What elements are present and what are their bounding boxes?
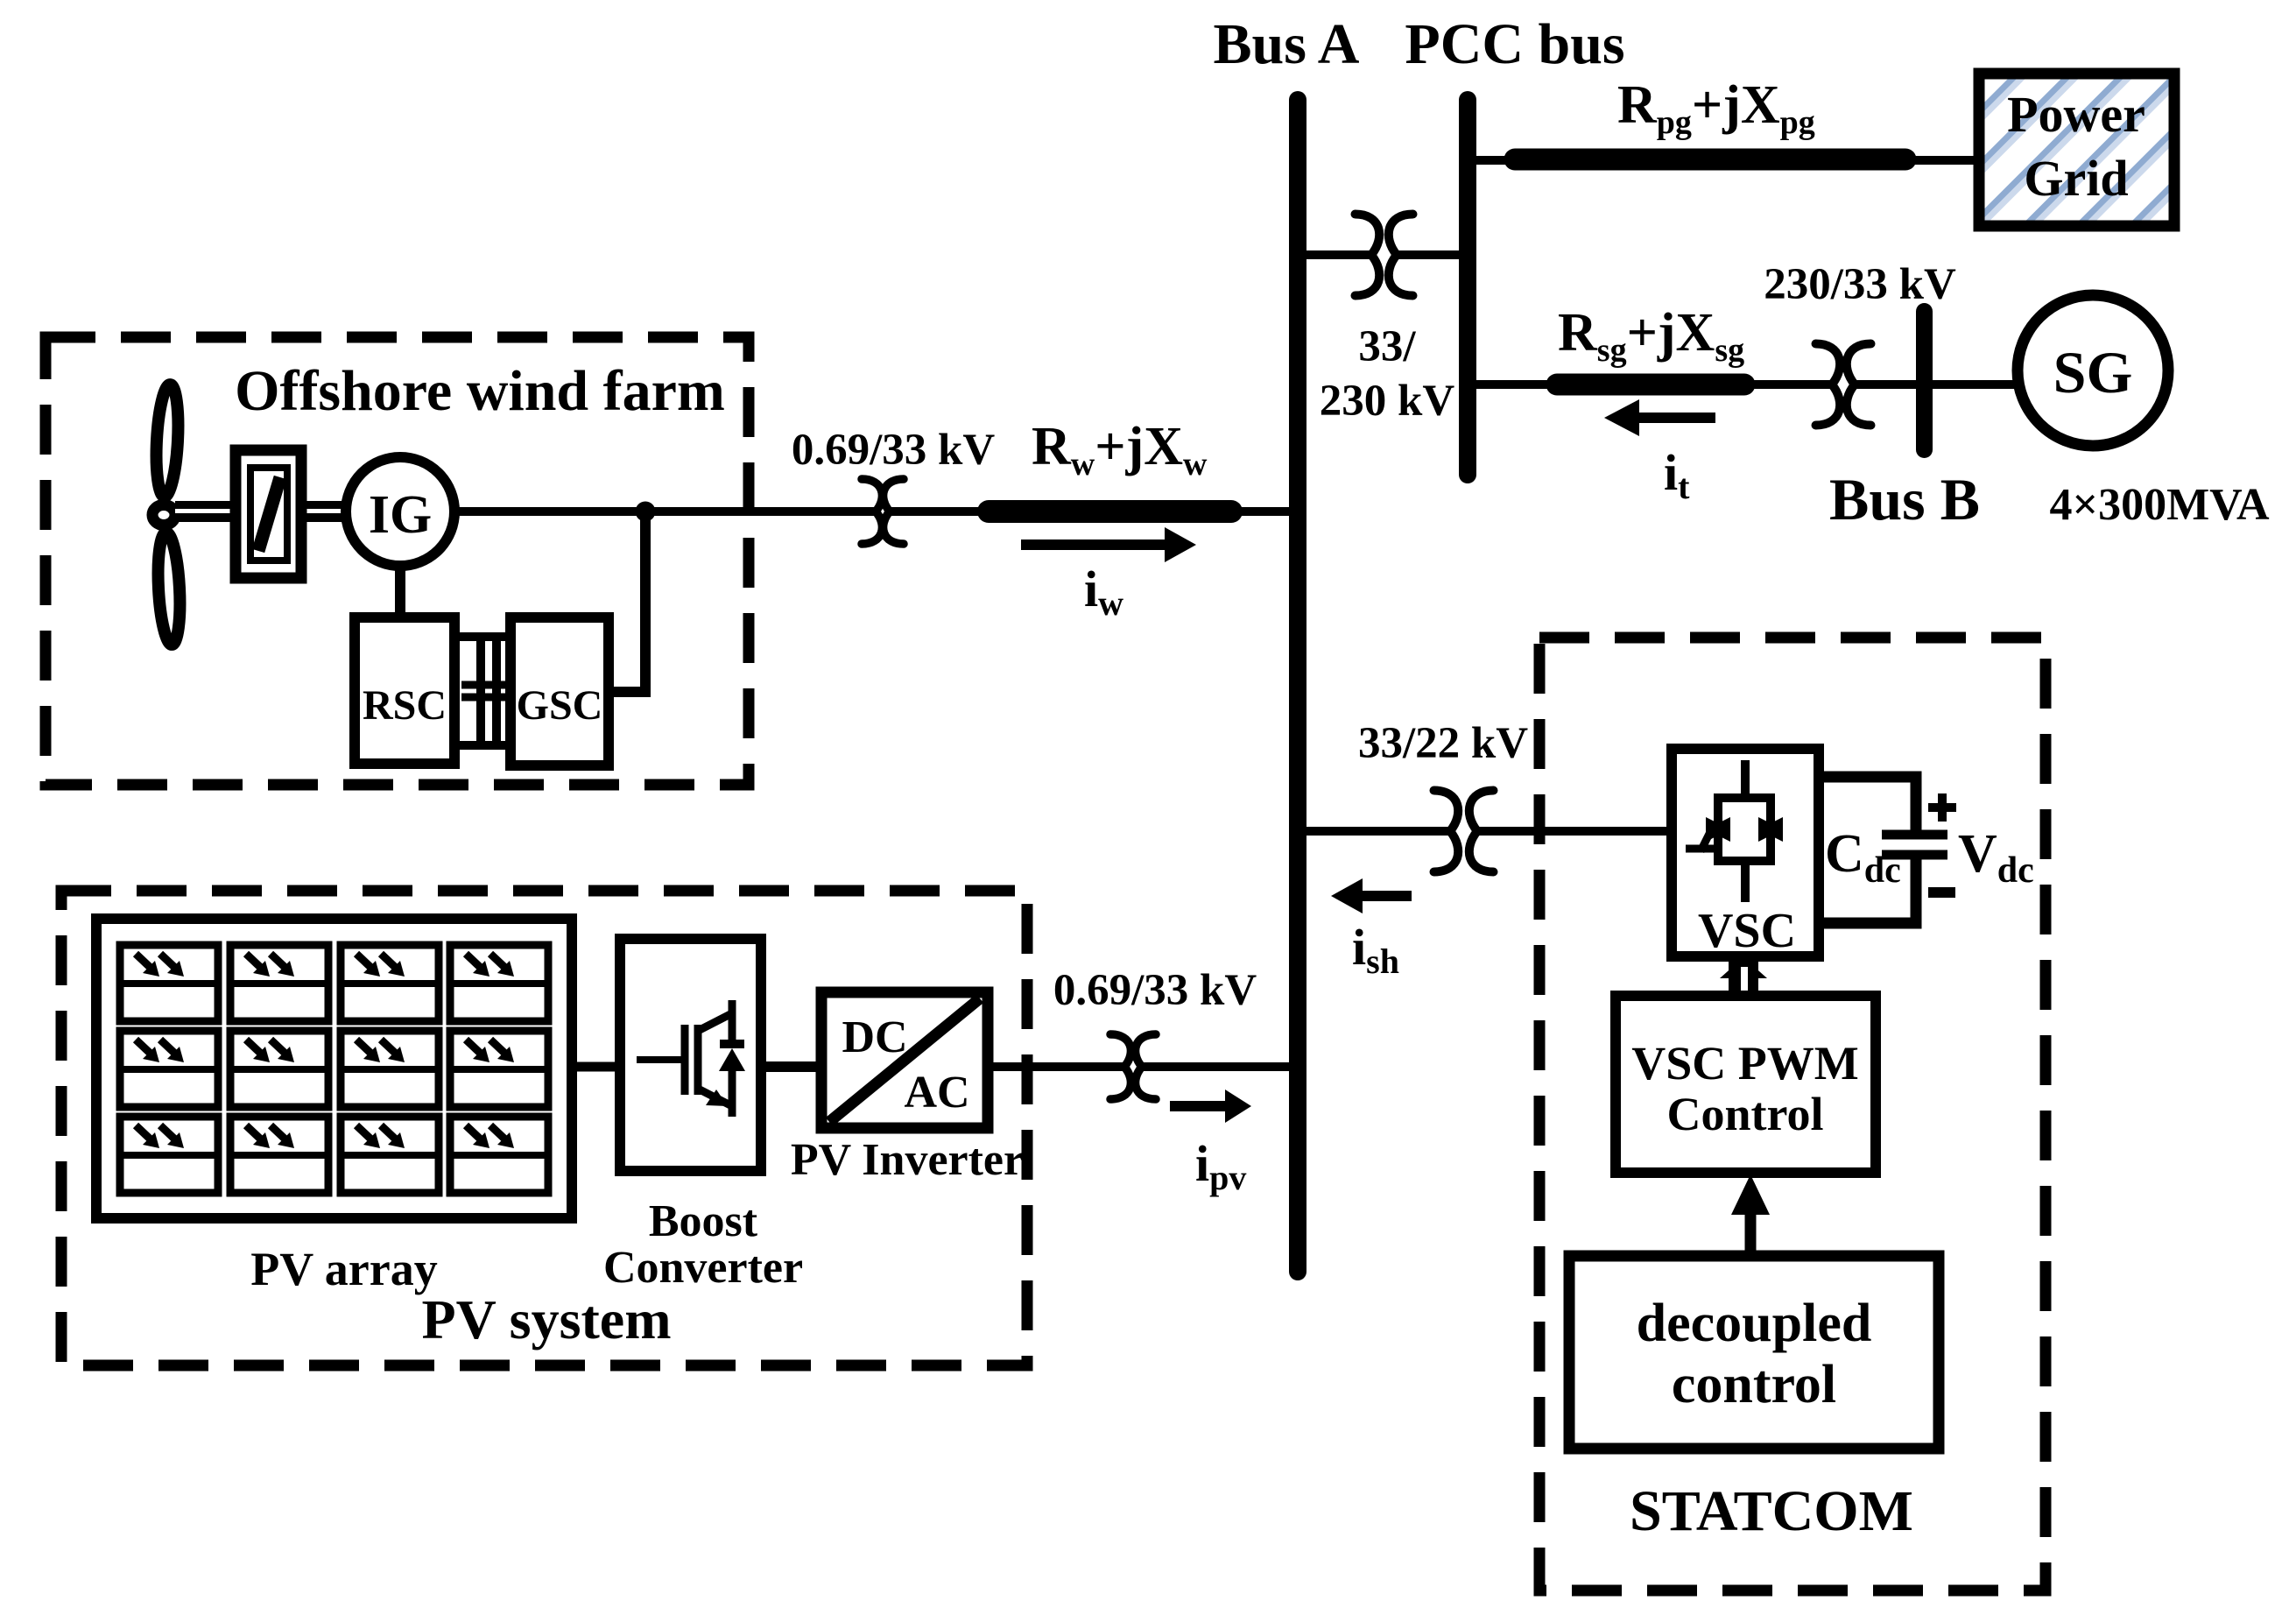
- wire GSC to junction: [609, 511, 645, 692]
- bus A: [1289, 91, 1306, 1280]
- svg-text:Control: Control: [1666, 1088, 1823, 1140]
- arrow it (current into PCC): [1637, 413, 1715, 423]
- generator SG: [2018, 295, 2168, 446]
- svg-text:Grid: Grid: [2024, 150, 2128, 207]
- svg-text:230/33 kV: 230/33 kV: [1764, 260, 1956, 309]
- converter GSC: [511, 617, 609, 765]
- svg-text:decoupled: decoupled: [1637, 1294, 1872, 1353]
- transformer T5 33/22 kV: [1434, 791, 1494, 872]
- dc link between RSC and GSC: [454, 637, 516, 745]
- wire IG to T3: [454, 507, 876, 516]
- controller VSC PWM Control: [1616, 996, 1876, 1173]
- wire T5 to VSC: [1477, 827, 1674, 836]
- svg-text:33/22 kV: 33/22 kV: [1358, 719, 1528, 768]
- transformer T3 0.69/33 kV (wind): [862, 479, 904, 544]
- svg-text:Converter: Converter: [603, 1243, 803, 1293]
- svg-text:VSC PWM: VSC PWM: [1631, 1037, 1858, 1090]
- wire PCC to power grid: [1475, 156, 1979, 165]
- value label 33/230 kV: [1320, 322, 1455, 426]
- boost converter block: [620, 939, 761, 1171]
- svg-text:RSC: RSC: [363, 682, 447, 729]
- impedance Rw: [989, 500, 1231, 523]
- transformer T1 33/230 kV: [1356, 215, 1413, 296]
- wire PV inverter to T4: [988, 1062, 1124, 1071]
- arrow ish: [1359, 891, 1412, 901]
- svg-text:Rw+jXw: Rw+jXw: [1032, 417, 1208, 483]
- polarity label minus: [1928, 887, 1955, 898]
- impedance Rpg (line impedance bar): [1515, 149, 1905, 171]
- bus PCC: [1459, 91, 1476, 483]
- STATCOM boundary: [1539, 638, 2046, 1590]
- induction generator IG: [346, 457, 454, 566]
- svg-text:Bus A: Bus A: [1214, 12, 1360, 76]
- arrow decoupled control to PWM: [1745, 1209, 1757, 1256]
- arrow iw: [1021, 539, 1165, 550]
- polarity label plus: [1928, 793, 1956, 822]
- impedance Rsg: [1557, 374, 1744, 396]
- wire T4 to Bus A: [1142, 1062, 1291, 1071]
- svg-text:SG: SG: [2053, 339, 2133, 405]
- svg-text:Offshore wind farm: Offshore wind farm: [235, 359, 725, 423]
- wire PV array to boost converter: [572, 1062, 623, 1072]
- svg-text:AC: AC: [904, 1068, 969, 1118]
- wire T3 to Bus A: [890, 507, 1291, 516]
- transformer T2 230/33 kV: [1816, 344, 1871, 426]
- wire Bus A to T1: [1305, 250, 1371, 259]
- wire T2 to Bus B: [1855, 380, 1918, 389]
- turbine shaft: [175, 501, 343, 522]
- VSC converter block: [1672, 749, 1819, 958]
- offshore wind farm boundary: [46, 337, 749, 785]
- PV modules grid: [120, 945, 548, 1193]
- svg-text:STATCOM: STATCOM: [1630, 1479, 1913, 1543]
- transformer T4 0.69/33 kV (PV): [1110, 1034, 1156, 1099]
- svg-text:33/: 33/: [1358, 322, 1416, 371]
- svg-text:230 kV: 230 kV: [1320, 377, 1455, 426]
- arrow PWM to VSC (double line): [1720, 957, 1767, 997]
- controller decoupled control: [1569, 1256, 1939, 1449]
- svg-text:Power: Power: [2007, 86, 2145, 143]
- svg-text:GSC: GSC: [517, 682, 603, 729]
- converter RSC: [355, 617, 454, 764]
- wind turbine blades and hub: [152, 384, 182, 645]
- PV inverter block: [821, 992, 988, 1128]
- svg-text:control: control: [1672, 1355, 1836, 1414]
- svg-text:0.69/33 kV: 0.69/33 kV: [792, 426, 996, 475]
- dc link top wire: [1819, 777, 1916, 830]
- wire Bus B to SG: [1932, 380, 2014, 389]
- svg-text:PV array: PV array: [250, 1243, 437, 1295]
- svg-text:DC: DC: [842, 1012, 907, 1062]
- label Boost Converter: [603, 1196, 803, 1293]
- wire IG to RSC: [395, 566, 405, 622]
- svg-text:4×300MVA: 4×300MVA: [2049, 480, 2270, 530]
- wire boost to PV inverter: [761, 1061, 821, 1072]
- svg-text:PV system: PV system: [422, 1288, 672, 1350]
- power grid source block: [1979, 74, 2174, 226]
- capacitor Cdc: [1882, 835, 1947, 855]
- bus B: [1916, 303, 1933, 458]
- svg-text:IG: IG: [369, 485, 432, 545]
- wire PCC to T2: [1475, 380, 1832, 389]
- svg-text:PCC bus: PCC bus: [1405, 12, 1624, 76]
- svg-text:0.69/33 kV: 0.69/33 kV: [1053, 966, 1257, 1015]
- svg-text:Bus B: Bus B: [1829, 466, 1980, 532]
- arrow ipv: [1170, 1101, 1228, 1111]
- svg-text:Boost: Boost: [649, 1196, 758, 1246]
- PV array outer frame: [96, 919, 572, 1218]
- svg-text:PV Inverter: PV Inverter: [791, 1135, 1024, 1185]
- gearbox: [236, 450, 301, 578]
- PV system boundary: [61, 891, 1027, 1365]
- junction node: [636, 502, 656, 522]
- wire T1 to PCC bus: [1397, 250, 1461, 259]
- dc link bottom wire: [1819, 859, 1916, 923]
- wire Bus A to T5: [1305, 827, 1450, 836]
- svg-text:VSC: VSC: [1698, 904, 1796, 958]
